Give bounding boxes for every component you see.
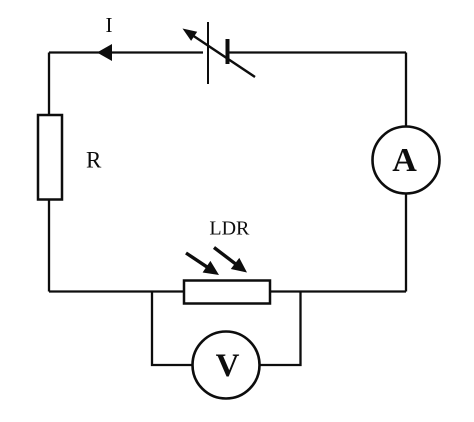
svg-text:LDR: LDR (209, 218, 250, 240)
svg-text:I: I (106, 13, 113, 37)
svg-text:R: R (86, 148, 102, 173)
svg-text:V: V (216, 348, 240, 384)
svg-text:A: A (392, 142, 417, 179)
